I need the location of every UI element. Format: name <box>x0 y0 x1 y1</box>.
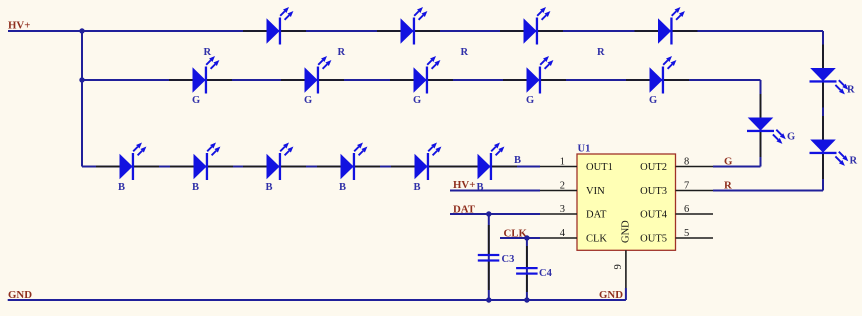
LED D-G4 row2 <box>503 56 566 94</box>
junction node HV+ row1/left rail <box>79 28 84 33</box>
LED D-B1 row3 <box>96 143 159 181</box>
svg-text:CLK: CLK <box>504 228 528 240</box>
svg-text:R: R <box>850 156 858 167</box>
capacitor C4 <box>516 246 552 292</box>
svg-text:G: G <box>413 95 421 106</box>
wire pin8 to G string <box>713 166 761 168</box>
svg-text:6: 6 <box>684 204 689 215</box>
wire GND rail <box>8 299 626 301</box>
svg-text:9: 9 <box>613 264 624 269</box>
pin 4 CLK <box>540 228 607 245</box>
svg-text:R: R <box>597 47 605 58</box>
wire left rail vertical <box>81 31 83 167</box>
wire right column vertical (R string) <box>822 31 824 191</box>
pin 6 OUT4 <box>640 204 713 221</box>
wire pin9 to GND rail <box>625 288 627 300</box>
svg-text:4: 4 <box>560 228 566 239</box>
svg-text:B: B <box>266 182 273 193</box>
svg-text:3: 3 <box>560 204 565 215</box>
svg-text:8: 8 <box>684 157 689 168</box>
svg-text:CLK: CLK <box>586 234 607 245</box>
svg-text:G: G <box>724 156 733 168</box>
LED D-G3 row2 <box>390 56 453 94</box>
svg-text:U1: U1 <box>578 144 591 155</box>
wire pin7 to R string <box>713 190 823 192</box>
svg-text:1: 1 <box>560 157 565 168</box>
wire G column vertical <box>760 80 762 167</box>
svg-text:OUT2: OUT2 <box>640 162 667 173</box>
pin 1 OUT1 <box>540 157 613 174</box>
LED D-R4 row1 <box>635 7 698 45</box>
svg-text:B: B <box>477 182 484 193</box>
svg-text:G: G <box>649 95 657 106</box>
wire CLK to pin4 <box>500 237 540 239</box>
svg-text:R: R <box>847 85 855 96</box>
svg-text:OUT5: OUT5 <box>640 234 667 245</box>
LED R vertical top right <box>810 45 849 108</box>
wire HV+ row1 horizontal <box>8 30 823 32</box>
svg-text:G: G <box>192 95 200 106</box>
LED D-R1 row1 <box>243 7 306 45</box>
svg-text:G: G <box>526 95 534 106</box>
LED D-B4 row3 <box>317 143 380 181</box>
svg-text:R: R <box>461 47 469 58</box>
svg-text:OUT1: OUT1 <box>586 162 613 173</box>
pin 8 OUT2 <box>640 157 713 174</box>
LED D-B3 row3 <box>243 143 306 181</box>
svg-text:B: B <box>414 182 421 193</box>
LED R vertical lower right <box>810 116 849 179</box>
wire row2 horizontal (G string) <box>82 79 761 81</box>
wire C4 branch vertical <box>526 238 528 300</box>
pin 9 GND <box>613 220 632 288</box>
svg-text:B: B <box>118 182 125 193</box>
junction node row2/left rail <box>79 77 84 82</box>
LED D-B2 row3 <box>170 143 233 181</box>
pin 3 DAT <box>540 204 607 221</box>
pin 2 VIN <box>540 181 605 198</box>
svg-text:B: B <box>514 155 521 166</box>
wire HV+ to pin2 VIN <box>450 190 540 192</box>
svg-text:GND: GND <box>8 289 32 301</box>
svg-text:OUT4: OUT4 <box>640 210 668 221</box>
capacitor C3 <box>478 225 515 290</box>
svg-text:GND: GND <box>599 289 623 301</box>
svg-text:DAT: DAT <box>586 210 607 221</box>
svg-text:C4: C4 <box>539 268 553 279</box>
pin 7 OUT3 <box>640 181 713 198</box>
svg-text:VIN: VIN <box>586 186 605 197</box>
LED D-B5 row3 <box>391 143 454 181</box>
LED D-B6 row3 <box>454 143 517 181</box>
LED D-G1 row2 <box>169 56 232 94</box>
svg-text:R: R <box>724 180 732 192</box>
svg-text:R: R <box>338 47 346 58</box>
svg-text:HV+: HV+ <box>8 20 30 32</box>
junction node C3/GND rail <box>486 297 491 302</box>
svg-text:2: 2 <box>560 181 565 192</box>
svg-text:G: G <box>304 95 312 106</box>
LED D-G2 row2 <box>281 56 344 94</box>
pin 5 OUT5 <box>640 228 713 245</box>
svg-text:G: G <box>787 132 795 143</box>
op-amp U1 (LED driver IC) body <box>577 144 676 251</box>
LED D-G5 row2 <box>626 56 689 94</box>
svg-text:B: B <box>339 182 346 193</box>
junction node C4/GND rail <box>524 297 529 302</box>
svg-text:OUT3: OUT3 <box>640 186 667 197</box>
svg-text:5: 5 <box>684 228 689 239</box>
svg-text:DAT: DAT <box>453 204 476 216</box>
LED G vertical right <box>747 94 786 157</box>
svg-text:HV+: HV+ <box>453 179 475 191</box>
junction node CLK/C4 <box>524 235 529 240</box>
LED D-R2 row1 <box>377 7 440 45</box>
svg-text:GND: GND <box>621 220 632 243</box>
wire row3 horizontal (B string) <box>82 166 540 168</box>
wire DAT to pin3 <box>450 213 540 215</box>
svg-text:R: R <box>204 47 212 58</box>
LED D-R3 row1 <box>500 7 563 45</box>
svg-text:C3: C3 <box>502 254 515 265</box>
svg-text:B: B <box>192 182 199 193</box>
wire C3 branch vertical <box>488 214 490 300</box>
svg-text:7: 7 <box>684 181 689 192</box>
junction node DAT/C3 <box>486 211 491 216</box>
